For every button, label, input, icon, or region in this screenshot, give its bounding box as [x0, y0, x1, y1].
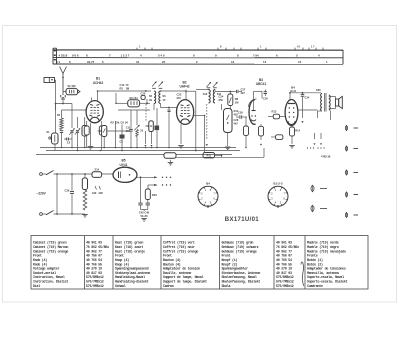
svg-text:Steckerbuchse, Antenne: Steckerbuchse, Antenne — [222, 271, 261, 276]
svg-text:Knopf (2): Knopf (2) — [222, 262, 238, 267]
svg-text:Socket-aerial: Socket-aerial — [33, 271, 56, 276]
wire pot right — [215, 154, 222, 156]
svg-text:Douille, antenne: Douille, antenne — [163, 271, 191, 276]
output transformer S20 primary — [321, 94, 322, 112]
ground — [90, 123, 92, 146]
adjust point 4 — [346, 192, 348, 198]
svg-text:Botón (1): Botón (1) — [307, 258, 323, 263]
wire riser R8 — [229, 92, 231, 95]
svg-text:110: 110 — [126, 129, 131, 133]
capacitor C8 dark — [120, 135, 125, 139]
aerial terminal block — [44, 78, 55, 83]
wire grid row — [62, 109, 87, 111]
capacitor C14 dark — [155, 126, 160, 131]
junction dots — [97, 90, 99, 92]
ground electrolytics — [141, 219, 147, 222]
osc tuning coil S3 — [102, 126, 107, 137]
svg-text:Kast (718) oranje: Kast (718) oranje — [115, 249, 145, 254]
svg-text:Adaptador de tensiones: Adaptador de tensiones — [307, 267, 346, 272]
heater line — [168, 156, 222, 158]
svg-text:Gehäuse (719) schwarz: Gehäuse (719) schwarz — [222, 245, 259, 250]
svg-text:250: 250 — [219, 98, 224, 102]
capacitor C20 — [141, 95, 145, 99]
svg-text:C24: C24 — [219, 95, 224, 99]
svg-text:C2: C2 — [67, 141, 71, 145]
svg-text:Handleiding-Naval: Handleiding-Naval — [115, 275, 145, 280]
wire IF1 bottoms — [153, 104, 155, 111]
antenna plug — [61, 95, 65, 99]
wire terminal block to junction — [55, 79, 56, 81]
svg-text:BX171U/01: BX171U/01 — [225, 217, 259, 223]
svg-text:16: 16 — [231, 60, 235, 64]
dial scale strip — [53, 48, 343, 64]
B4 anode dash — [288, 103, 295, 105]
svg-text:S2 452: S2 452 — [67, 84, 76, 88]
switch top — [42, 173, 46, 175]
tube B2 envelope — [177, 100, 194, 125]
svg-text:Spannungswähler: Spannungswähler — [222, 267, 249, 272]
svg-text:Manecilla, antenna: Manecilla, antenna — [307, 271, 339, 276]
svg-text:Voltage adapter: Voltage adapter — [33, 267, 60, 272]
svg-text:Mueble (719) negro: Mueble (719) negro — [307, 245, 339, 250]
svg-text:Kast (718) zwart: Kast (718) zwart — [115, 245, 143, 250]
svg-text:S10: S10 — [203, 92, 208, 96]
adjust point 1 — [346, 125, 348, 131]
wire antenna lead — [62, 99, 64, 104]
adjust point 5 — [346, 212, 348, 218]
wire wavetrap down — [71, 104, 73, 129]
svg-text:Cabinet (719) orange: Cabinet (719) orange — [33, 249, 68, 254]
svg-text:Cabinet (719) green: Cabinet (719) green — [33, 241, 67, 246]
IF1 secondary coil S6 — [159, 91, 161, 104]
svg-text:UL41: UL41 — [290, 89, 297, 93]
svg-text:576/7M8x12: 576/7M8x12 — [86, 280, 104, 285]
svg-text:Dial: Dial — [33, 284, 40, 289]
selector arrows — [95, 186, 97, 190]
rectifier tube B5 — [113, 167, 137, 182]
svg-text:S9 154: S9 154 — [129, 96, 138, 100]
screen wire — [298, 109, 318, 111]
B3 anode — [253, 100, 255, 110]
svg-text:C26: C26 — [238, 111, 243, 115]
svg-text:Bouton (4): Bouton (4) — [163, 258, 181, 263]
svg-text:R2: R2 — [111, 121, 115, 125]
mains terminal top — [40, 173, 43, 176]
svg-text:C11: C11 — [126, 126, 131, 130]
cathode resistor R14 — [291, 126, 293, 128]
capacitor C39 mains — [71, 174, 73, 191]
wire AVC vertical — [186, 90, 196, 92]
alignment arrows — [314, 133, 316, 139]
transformer core — [324, 93, 326, 112]
svg-text:Gehäuse (719) orange: Gehäuse (719) orange — [222, 249, 257, 254]
svg-text:76 862 65/B6x: 76 862 65/B6x — [86, 245, 109, 250]
svg-text:4 5316: 4 5316 — [59, 54, 68, 58]
svg-text:9 4: 9 4 — [56, 60, 60, 64]
svg-text:5 4 9: 5 4 9 — [158, 54, 165, 58]
wavetrap S2 — [66, 88, 78, 94]
wire secondary return — [330, 111, 332, 121]
svg-text:Handleiding-dialekt: Handleiding-dialekt — [115, 280, 149, 285]
svg-text:S14: S14 — [94, 168, 99, 172]
svg-text:Knop (4): Knop (4) — [115, 258, 129, 263]
svg-text:9 8 6: 9 8 6 — [72, 54, 79, 58]
wire B3 anode top — [254, 90, 262, 92]
svg-text:Coffret (719) orange: Coffret (719) orange — [163, 249, 198, 254]
svg-text:Coffret (719) vert: Coffret (719) vert — [163, 241, 195, 246]
capacitor C12 — [130, 110, 132, 129]
wire pot top — [221, 104, 223, 110]
pen scribble — [302, 262, 303, 286]
voltage selector S14 — [92, 172, 102, 178]
svg-text:Bouton (4): Bouton (4) — [163, 262, 181, 267]
svg-text:Spanningsaanpassend: Spanningsaanpassend — [115, 267, 149, 272]
svg-text:4k7: 4k7 — [234, 122, 239, 126]
svg-text:Support de lampe, Naval: Support de lampe, Naval — [163, 275, 204, 280]
B1 top stubs — [91, 98, 93, 101]
tuning arrow — [98, 130, 102, 132]
svg-text:4k7: 4k7 — [241, 91, 246, 95]
trimmer arrows IF2 — [207, 82, 218, 87]
svg-text:C28: C28 — [234, 118, 239, 122]
svg-text:R3: R3 — [120, 86, 124, 90]
svg-text:240: 240 — [92, 191, 97, 195]
capacitor C3 — [60, 131, 63, 133]
svg-text:Knob (4): Knob (4) — [33, 258, 47, 263]
gram socket S9 — [128, 100, 140, 107]
dial lamp 1 — [312, 185, 314, 192]
svg-text:Cadran: Cadran — [163, 284, 174, 289]
electrolytic C46 — [146, 203, 150, 205]
svg-text:50+50: 50+50 — [140, 214, 148, 218]
wire bus 2 — [46, 150, 240, 152]
svg-text:C39: C39 — [65, 189, 70, 193]
dial lamp 2 — [312, 205, 314, 212]
svg-text:C9: C9 — [121, 121, 125, 125]
svg-text:UAF42: UAF42 — [179, 85, 189, 89]
wire B2 out right — [194, 115, 205, 117]
grid resistor boxes under B1 — [84, 126, 89, 135]
svg-text:R13: R13 — [272, 110, 277, 114]
svg-text:576/DM8x12: 576/DM8x12 — [86, 275, 104, 280]
svg-text:B1-2-3: B1-2-3 — [273, 182, 283, 186]
tuning gang dashed link — [145, 104, 147, 121]
IF2 secondary coil S11 — [213, 90, 215, 104]
wire B2 left — [161, 107, 177, 109]
svg-text:B4: B4 — [291, 86, 295, 90]
B3 grid dots — [251, 115, 252, 116]
svg-text:C27: C27 — [241, 88, 246, 92]
svg-text:R1: R1 — [57, 113, 61, 117]
svg-text:UY41: UY41 — [120, 163, 128, 167]
svg-text:1 7: 1 7 — [311, 44, 315, 48]
svg-text:Knop (4): Knop (4) — [115, 262, 129, 267]
wire verticals mid — [115, 121, 117, 148]
svg-text:Support de lampe, Dialekt: Support de lampe, Dialekt — [163, 280, 207, 285]
wire to speaker — [329, 96, 336, 98]
svg-text:Adaptateur de tension: Adaptateur de tension — [163, 267, 200, 272]
resistor R9 — [244, 126, 249, 135]
svg-text:C20: C20 — [141, 92, 146, 96]
wire B4 anode riser — [289, 93, 291, 100]
svg-text:Soporte-escala, Naval: Soporte-escala, Naval — [307, 275, 344, 280]
wire IF2 out — [214, 90, 216, 92]
svg-text:4782 36: 4782 36 — [321, 154, 331, 158]
B2 stubs — [185, 91, 187, 100]
adjust point 2 — [346, 146, 348, 152]
wire lower row — [118, 109, 150, 111]
svg-text:UBC41: UBC41 — [256, 82, 267, 86]
speaker — [336, 99, 339, 106]
detector coil box — [224, 109, 233, 133]
wire AVC row — [107, 130, 130, 132]
aerial coil S1 — [55, 104, 57, 134]
svg-text:Mueble (719) naranjado: Mueble (719) naranjado — [307, 249, 346, 254]
svg-text:Coffret (719) noir: Coffret (719) noir — [163, 245, 195, 250]
trimmer C5 — [76, 131, 79, 133]
tube B1 envelope — [86, 101, 103, 123]
trimmer C4 — [70, 131, 73, 133]
svg-text:7 94: 7 94 — [253, 54, 259, 58]
wire IF1 to B2 — [161, 90, 187, 92]
wire B5 output — [137, 176, 157, 178]
wire switch link vertical — [56, 174, 58, 214]
capacitor C34 — [301, 94, 305, 96]
svg-text:Knob (4): Knob (4) — [33, 262, 47, 267]
svg-text:1M: 1M — [235, 101, 239, 105]
wire coil to bus — [54, 144, 56, 151]
parts table — [31, 236, 368, 290]
svg-text:Skala: Skala — [222, 284, 231, 289]
svg-text:Botón (2): Botón (2) — [307, 262, 323, 267]
svg-text:Soporte-escala, Dialekt: Soporte-escala, Dialekt — [307, 280, 348, 285]
wire bus 1 — [40, 147, 236, 149]
second feed arrow — [148, 184, 157, 186]
capacitor C2 — [67, 138, 69, 141]
mains terminal bottom — [40, 213, 43, 216]
svg-text:C45 C46: C45 C46 — [139, 211, 150, 215]
connection arrows — [145, 131, 147, 144]
svg-text:R8: R8 — [235, 97, 239, 101]
svg-text:C30: C30 — [263, 97, 268, 101]
svg-text:1M: 1M — [126, 86, 130, 90]
grid cap wire arc — [249, 99, 257, 107]
wire into IF2 — [185, 90, 187, 92]
adjust point 3 — [346, 170, 348, 176]
svg-text:~220V: ~220V — [37, 192, 47, 196]
wire osc coil down — [103, 137, 105, 148]
oscillator padder box — [82, 126, 87, 137]
svg-text:Cabinet (719) Maroon: Cabinet (719) Maroon — [33, 245, 68, 250]
tube B4 envelope — [285, 100, 298, 126]
capacitor C30 — [264, 92, 267, 94]
trimmer arrows IF1 — [152, 82, 163, 87]
wire R8 to detector box — [229, 106, 231, 109]
svg-text:R23: R23 — [152, 193, 157, 197]
svg-text:76 862 65/B6x: 76 862 65/B6x — [276, 245, 299, 250]
svg-text:S1: S1 — [46, 130, 50, 134]
svg-text:Skalenfassung, Dialekt: Skalenfassung, Dialekt — [222, 280, 261, 285]
grid stopper box — [273, 114, 279, 119]
tuning cap box C13 — [149, 121, 154, 132]
padder trimmer C15 — [136, 110, 138, 125]
tube B3 envelope — [249, 100, 255, 124]
svg-text:S20: S20 — [316, 88, 321, 92]
svg-text:B4: B4 — [206, 182, 210, 186]
lower box — [276, 135, 283, 140]
IF1 primary coil S5 — [154, 91, 156, 104]
svg-text:Kast (718) groen: Kast (718) groen — [115, 241, 143, 246]
wire to electrolytics — [140, 177, 142, 202]
filter resistor R23 — [145, 189, 150, 200]
wire B1 anode to IF1 — [98, 90, 152, 92]
svg-text:Knopf (1): Knopf (1) — [222, 258, 238, 263]
svg-text:Stekkerplaat-antenne: Stekkerplaat-antenne — [115, 271, 150, 276]
B1 bottom pins — [86, 121, 88, 126]
svg-text:14: 14 — [263, 60, 267, 64]
svg-text:S6: S6 — [162, 94, 166, 98]
svg-text:S5: S5 — [149, 94, 153, 98]
volume pot R11 — [203, 153, 215, 158]
svg-text:210: 210 — [177, 96, 182, 100]
antenna — [60, 67, 67, 96]
IF2 primary coil S10 — [209, 90, 211, 104]
electrolytic C45 — [138, 203, 142, 205]
volume link dashed — [206, 104, 208, 140]
wire bus 3 — [36, 153, 232, 155]
svg-text:Instruction, Naval: Instruction, Naval — [33, 275, 65, 280]
wire transformer bottom — [318, 110, 323, 112]
resistor R8 — [228, 94, 233, 106]
resistor R1 — [60, 118, 63, 130]
svg-text:94,75: 94,75 — [87, 60, 95, 64]
svg-text:25: 25 — [162, 60, 166, 64]
svg-text:R14: R14 — [295, 129, 300, 133]
svg-text:31: 31 — [136, 60, 140, 64]
B3 cathode arc — [251, 120, 256, 121]
wire gram socket — [115, 93, 117, 103]
heater box S16 — [164, 153, 176, 158]
wire B2 to volume pot — [204, 116, 206, 153]
svg-text:576/9M8x12: 576/9M8x12 — [86, 284, 104, 289]
svg-text:C34: C34 — [305, 96, 310, 100]
resistor R10 — [259, 126, 264, 136]
dropper resistor R25 — [83, 190, 87, 210]
svg-text:C8: C8 — [120, 140, 124, 144]
output transformer secondary — [329, 95, 330, 110]
svg-text:Gehäuse (719) grün: Gehäuse (719) grün — [222, 241, 254, 246]
svg-text:Instruction, Dialist: Instruction, Dialist — [33, 280, 68, 285]
svg-text:UCH42: UCH42 — [93, 81, 104, 85]
svg-text:Skalenfassung, Naval: Skalenfassung, Naval — [222, 275, 257, 280]
svg-text:576/9M8x12: 576/9M8x12 — [276, 284, 294, 289]
ground mains — [82, 215, 88, 218]
svg-text:576/DM8x12: 576/DM8x12 — [276, 275, 294, 280]
svg-text:Mueble (719) verde: Mueble (719) verde — [307, 241, 339, 246]
svg-text:1 2 3 7: 1 2 3 7 — [121, 54, 130, 58]
svg-text:Cuadrante: Cuadrante — [307, 284, 323, 289]
dropper box R24 — [82, 178, 87, 190]
svg-text:12: 12 — [298, 60, 302, 64]
svg-text:Schaal: Schaal — [115, 284, 126, 289]
svg-text:576/7M8x12: 576/7M8x12 — [276, 280, 294, 285]
capacitor C27 — [236, 90, 238, 93]
svg-text:220: 220 — [99, 191, 104, 195]
coupling caps B2-B3 — [240, 115, 242, 118]
switch bottom — [42, 213, 46, 215]
